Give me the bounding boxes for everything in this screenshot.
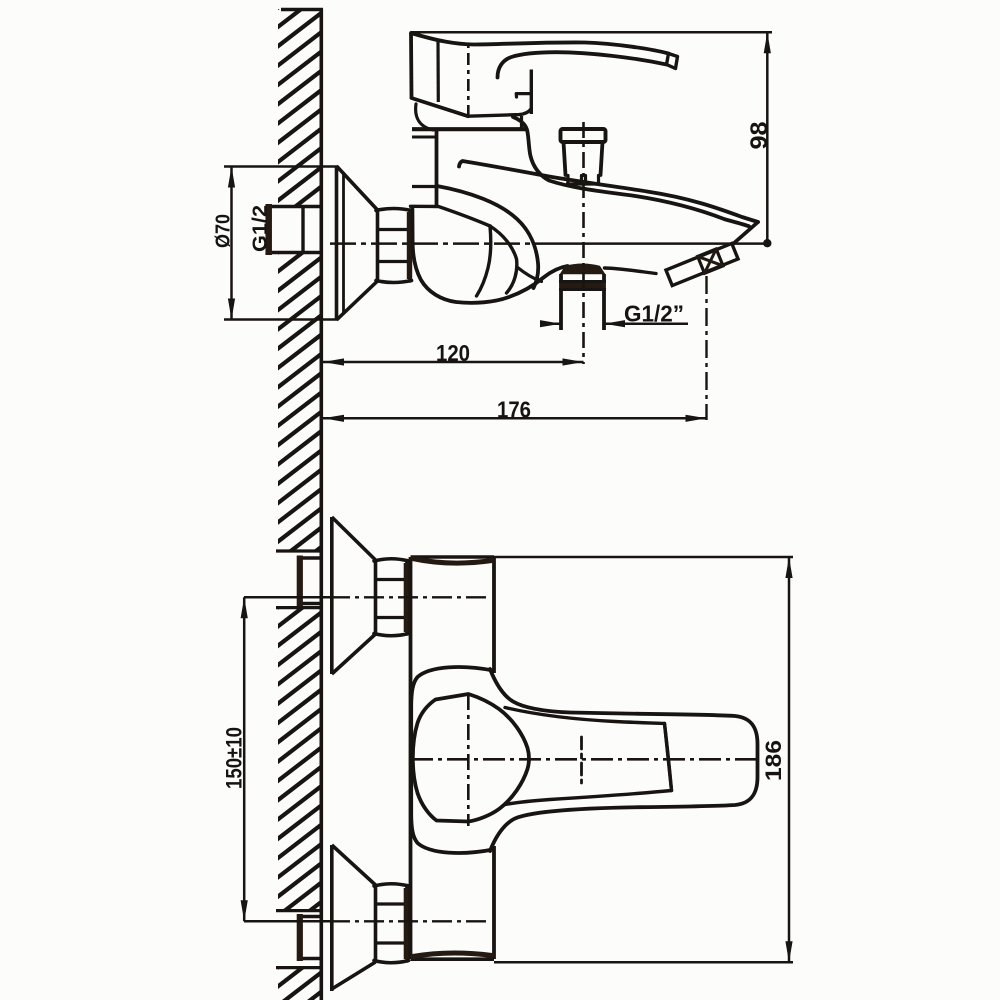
svg-text:150±10: 150±10 — [222, 727, 247, 789]
svg-text:120: 120 — [436, 340, 470, 366]
svg-text:176: 176 — [497, 397, 531, 423]
svg-text:98: 98 — [746, 122, 773, 150]
svg-text:186: 186 — [761, 740, 786, 781]
svg-text:G1/2”: G1/2” — [624, 301, 684, 327]
svg-text:Ø70: Ø70 — [213, 214, 235, 248]
svg-text:G1/2: G1/2 — [250, 205, 272, 252]
